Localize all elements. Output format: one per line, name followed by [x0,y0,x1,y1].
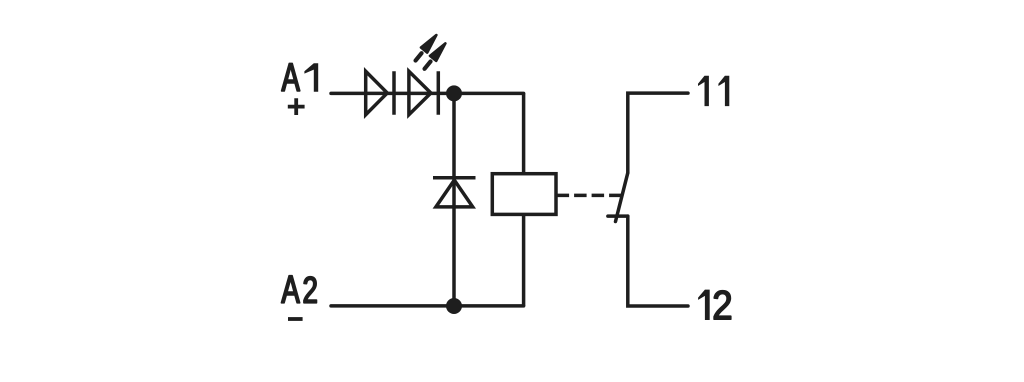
LED light arrow 1 [412,33,439,64]
LED light arrow 2 [421,41,448,72]
polarity plus sign [288,98,305,115]
terminal label A2 [281,276,299,303]
terminal label A1 [282,63,300,91]
diode D1 [366,71,394,114]
LED D2 [409,71,438,114]
terminal label 12 [698,290,710,320]
actuation dashed link [557,194,622,198]
contact wire to 12 [628,216,688,306]
wire top rail from A1 [331,92,524,96]
polarity minus sign [288,317,303,321]
contact wire to 11 [628,93,688,173]
contact fixed tick [608,214,628,218]
diode D3 freewheeling [433,178,476,207]
contact blade [616,173,628,222]
wire coil feed right vertical [522,93,526,173]
relay coil K1 [492,174,556,215]
wire bottom rail from A2 [331,304,524,308]
wire freewheeling branch vertical [452,93,456,306]
node junction bottom [446,298,462,314]
wire coil bottom vertical [522,214,526,306]
node junction top [446,85,462,101]
terminal label 11 [698,76,709,106]
